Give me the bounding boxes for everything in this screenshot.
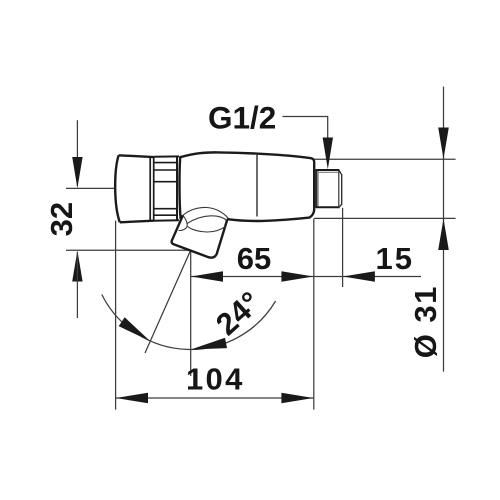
thread cap gray line [317, 170, 319, 208]
push button rim line 1 [149, 157, 151, 221]
centerline left of button [66, 187, 114, 189]
svg-text:32: 32 [44, 202, 79, 236]
thread bottom edge [316, 206, 340, 208]
stem top edge [154, 155, 179, 157]
tap body outline [180, 152, 314, 221]
thread end inner line [338, 170, 340, 208]
arrow 65 left [191, 271, 223, 282]
spout opening teardrop [179, 216, 188, 231]
arrow 104 right [281, 393, 313, 404]
tap body fill [180, 152, 314, 219]
push button left face [115, 155, 120, 222]
arrow 15 right [343, 271, 375, 282]
outlet reference line y=250 [66, 249, 191, 251]
spout fill [172, 207, 229, 257]
spout lower rim curve [188, 226, 226, 232]
svg-text:65: 65 [237, 241, 271, 276]
dimension line 104 [116, 397, 313, 399]
arrow 65 right / 15 left [281, 271, 313, 282]
spout top curve [183, 207, 228, 218]
24 degree arc [102, 295, 276, 350]
arrow 104 left [116, 393, 148, 404]
spout middle curve [187, 216, 227, 224]
thread top edge [316, 169, 339, 171]
diameter 31 top arrow [438, 128, 449, 160]
stem bar 2 [155, 169, 177, 171]
extension line x=313.8 (104/65 right) [313, 219, 315, 410]
diameter 31 dim line [443, 87, 445, 372]
dimension 32 top arrow [72, 157, 82, 188]
thread cap dark line [315, 169, 318, 208]
tap body left edge [179, 157, 180, 219]
push button rim line 2 [153, 157, 155, 222]
diameter 31 bottom arrow [438, 219, 449, 250]
stem bar 5 [155, 214, 177, 216]
thread top gray line [317, 171, 338, 173]
diameter 31 extension line top [314, 158, 456, 160]
dimension line 65/15 [191, 276, 421, 278]
collar line [176, 156, 178, 220]
spout outline [172, 215, 229, 257]
arc arrow left (on slanted line) [119, 317, 151, 341]
stem bottom edge [154, 219, 179, 222]
svg-text:Ø 31: Ø 31 [408, 285, 443, 358]
thread chamfer [339, 170, 342, 208]
G1/2 leader arrow [323, 138, 333, 170]
G1/2 leader line [283, 117, 328, 141]
diameter 31 extension line bottom [314, 217, 456, 219]
extension line x=190.7 below spout [190, 251, 192, 377]
extension line x=115.6 (104 left) [115, 221, 117, 410]
stem bar 4 [155, 208, 177, 210]
push button bottom edge [120, 221, 154, 223]
push button fill [115, 155, 153, 222]
arc arrow right (on vertical line) [191, 338, 227, 350]
svg-text:15: 15 [376, 241, 414, 276]
stem bar 3 [155, 181, 177, 183]
svg-text:G1/2: G1/2 [208, 100, 276, 136]
push button top edge [119, 155, 154, 157]
dimension 32 vertical line bottom segment [76, 252, 78, 318]
24 degree slanted line [145, 251, 191, 354]
dimension 32 bottom arrow [72, 250, 82, 281]
extension line x=342.6 (15 right) [342, 208, 344, 287]
stem bar 1 [155, 162, 177, 164]
svg-text:104: 104 [186, 361, 245, 396]
body seam line [256, 154, 258, 217]
dimension 32 vertical line top segment [76, 120, 78, 186]
